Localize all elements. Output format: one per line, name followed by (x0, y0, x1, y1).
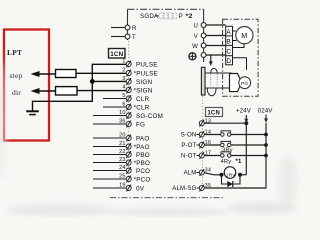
svg-text:SGDA: SGDA (140, 13, 159, 20)
terminal PE with earth symbol (189, 53, 206, 60)
resistor R2 (dir line) (56, 87, 78, 95)
svg-text:2: 2 (122, 68, 125, 74)
pin 34 ALM (184, 168, 212, 177)
pin 4 *SIGN (122, 85, 152, 95)
LPT computer port box (4, 30, 49, 141)
svg-text:P: P (179, 13, 183, 20)
svg-text:ALM-SG: ALM-SG (172, 186, 196, 192)
svg-text:FG: FG (136, 121, 145, 128)
wire V to motor B (206, 35, 226, 37)
svg-text:P-OT: P-OT (181, 143, 196, 149)
svg-text:LPT: LPT (7, 48, 22, 57)
svg-text:PCO: PCO (136, 168, 150, 175)
node relay right (238, 173, 242, 177)
svg-text:19: 19 (119, 183, 126, 189)
svg-text:1Ry: 1Ry (226, 173, 236, 179)
encoder cable wire lower (205, 87, 232, 89)
svg-text:4Ry: 4Ry (221, 159, 232, 165)
svg-text:U: U (193, 23, 198, 29)
terminal V (194, 33, 206, 40)
pin 10 SG-COM (93, 110, 163, 120)
svg-text:21: 21 (119, 141, 126, 147)
svg-text:W: W (192, 44, 198, 50)
encoder PG circle (239, 77, 251, 89)
svg-text:*PCO: *PCO (134, 176, 151, 183)
svg-text:20: 20 (119, 133, 126, 139)
wire +24V rail down to relay (245, 123, 247, 175)
pin 5 CLR (103, 93, 149, 103)
wire R1 to pin2 (76, 72, 127, 74)
svg-text:23: 23 (119, 157, 126, 163)
relay coil 1Ry (224, 167, 236, 179)
wire W to motor C (206, 45, 226, 47)
connector 1CN label box (left) (109, 49, 126, 59)
diode across relay (222, 175, 241, 187)
pin 14 S-ON (181, 130, 211, 139)
pin 36 FG (93, 119, 145, 129)
node relay left (220, 173, 224, 177)
svg-text:PBO: PBO (136, 152, 150, 159)
svg-text:step: step (10, 71, 23, 80)
svg-text:*CLR: *CLR (134, 104, 150, 111)
svg-text:SIGN: SIGN (136, 79, 152, 86)
wire bus to pin3 (92, 80, 127, 82)
motor assembly dashed enclosure (223, 19, 259, 96)
encoder cable wire upper (205, 72, 232, 74)
wire 024V rail (205, 123, 267, 188)
svg-text:*1: *1 (236, 159, 243, 165)
wire step with arrow (31, 71, 56, 77)
wire U to motor A (206, 24, 226, 26)
power 024V label and arrow (258, 109, 273, 124)
switch P-OT (pin16) (205, 141, 268, 147)
svg-text:C: C (226, 48, 231, 55)
terminal T (125, 34, 136, 41)
wire common bus to pin1 and ground (33, 64, 127, 110)
svg-text:3Ry: 3Ry (222, 147, 232, 153)
pin 1 PULSE (122, 59, 157, 69)
wire relay right to +24V rail (240, 174, 246, 176)
switch N-OT (pin17) (205, 152, 268, 158)
pin 17 N-OT (181, 151, 211, 160)
pin 20 PAO (93, 133, 149, 143)
cable shield dotted (210, 74, 212, 87)
pin 25 *PCO (93, 174, 151, 184)
pin 16 P-OT (181, 140, 211, 149)
wire dir with arrow (31, 88, 56, 94)
svg-text:PULSE: PULSE (136, 61, 158, 68)
svg-text:6: 6 (122, 102, 125, 108)
power +24V label and arrow (236, 109, 251, 124)
pin 3 SIGN (122, 76, 152, 86)
svg-text:1: 1 (122, 59, 125, 65)
wire to terminal T (111, 36, 125, 38)
svg-text:A: A (226, 29, 231, 36)
motor terminal strip A B C D (226, 26, 233, 65)
connector 2CN on drive edge (201, 67, 205, 95)
cable twist loop bottom (207, 89, 216, 96)
wire R2 to pin4 (77, 90, 127, 92)
svg-text:ALM: ALM (184, 171, 197, 177)
pin 19 0V (93, 183, 145, 193)
terminal W (192, 43, 206, 50)
svg-text:22: 22 (119, 149, 126, 155)
svg-text:B: B (226, 39, 230, 46)
pin 2 *PULSE (122, 68, 158, 78)
cable twist loop top (211, 68, 218, 73)
svg-text:N-OT: N-OT (181, 154, 197, 160)
resistor R1 (step line) (56, 70, 77, 78)
svg-text:*SIGN: *SIGN (134, 87, 153, 94)
terminal U (193, 23, 206, 30)
svg-text:25: 25 (119, 174, 126, 180)
svg-text:+24V: +24V (236, 109, 251, 115)
switch S-ON (pin14) (205, 131, 268, 137)
terminal R (125, 25, 137, 32)
svg-text:*PBO: *PBO (134, 160, 151, 167)
svg-text:0V: 0V (136, 185, 145, 192)
pin 22 PBO (93, 149, 150, 159)
svg-text:24: 24 (119, 165, 126, 171)
svg-text:36: 36 (119, 119, 126, 125)
svg-text:5: 5 (122, 93, 125, 99)
svg-text:M: M (241, 31, 247, 40)
junction node on pin3 row (90, 79, 95, 84)
svg-text:*2: *2 (186, 13, 193, 20)
svg-text:S-ON: S-ON (181, 133, 197, 139)
node +24V junction (244, 121, 248, 125)
svg-text:024V: 024V (258, 109, 273, 115)
label 4Ry *1 (221, 159, 243, 165)
wire strip D runs right (233, 58, 247, 70)
svg-text:PAO: PAO (136, 135, 149, 142)
pin 35 ALM-SG (172, 183, 211, 192)
svg-text:R: R (132, 26, 137, 32)
ground symbol (26, 111, 39, 114)
servo drive enclosure top border (128, 8, 204, 10)
wire PE to motor D (206, 54, 226, 56)
wire strip A to motor (233, 30, 236, 32)
wire pin34 to relay (205, 173, 222, 175)
ground arrow on PE wire (209, 55, 213, 66)
pin 24 PCO (93, 165, 150, 175)
svg-text:PG: PG (241, 81, 248, 87)
svg-text:3: 3 (122, 76, 125, 82)
servo drive enclosure left edge (127, 9, 129, 40)
svg-text:D: D (226, 58, 231, 65)
label SGDA model (140, 13, 193, 20)
connector 1CN body dotted line (left) (128, 41, 130, 191)
pin 13 +24VIN (199, 118, 211, 126)
svg-text:SG-COM: SG-COM (136, 113, 163, 120)
connector 1CN label box (right) (206, 108, 223, 117)
scan noise (decorative) (0, 60, 298, 217)
PG plug pentagon (230, 74, 242, 92)
servo drive enclosure right edge (203, 9, 205, 62)
wire to terminal R (111, 27, 125, 29)
svg-text:CLR: CLR (136, 96, 149, 103)
svg-text:1CN: 1CN (110, 51, 123, 58)
svg-text:*PAO: *PAO (134, 144, 150, 151)
pin 23 *PBO (93, 157, 150, 167)
wire strip B to motor (233, 40, 237, 42)
svg-text:10: 10 (119, 110, 126, 116)
pin 6 *CLR (103, 102, 150, 112)
svg-text:T: T (132, 35, 136, 41)
svg-text:1CN: 1CN (207, 111, 220, 117)
drive bottom border (110, 197, 223, 199)
motor M circle (236, 27, 253, 44)
connector 1CN body dotted line (right) (202, 97, 204, 191)
pin 21 *PAO (93, 141, 150, 151)
svg-text:V: V (194, 34, 198, 40)
svg-text:dir: dir (12, 88, 21, 97)
svg-text:*PULSE: *PULSE (134, 70, 158, 77)
wire pin13 to +24V rail (205, 122, 247, 124)
svg-text:4: 4 (122, 85, 125, 91)
wire strip C to motor (233, 43, 245, 47)
